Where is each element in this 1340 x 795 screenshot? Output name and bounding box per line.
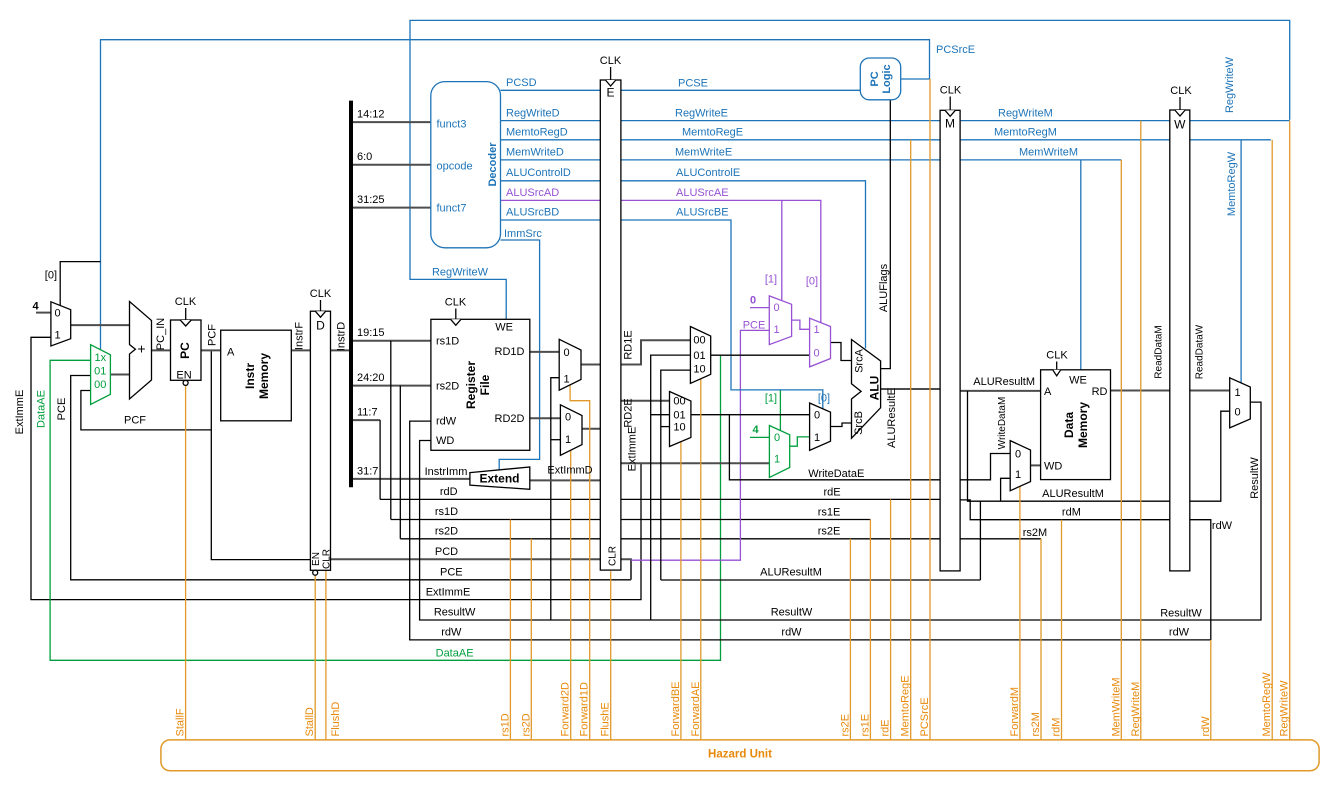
svg-text:Memory: Memory <box>1076 402 1090 448</box>
svg-text:1: 1 <box>563 374 569 386</box>
wire FlushE hazard to E register CLR <box>610 571 612 740</box>
svg-text:StallD: StallD <box>304 707 316 736</box>
wire ALUResultM drop to E stage bus <box>979 501 981 580</box>
wire ForwardBE hazard to SrcB forward mux select <box>680 441 682 740</box>
wire InstrD D register to instruction bus <box>331 349 352 351</box>
wire ResultW bus from result mux back to Register File WD <box>420 402 1261 620</box>
wire rdW bus from W register back to Register File rdW <box>410 421 1211 640</box>
svg-text:Extend: Extend <box>479 472 519 486</box>
svg-text:0: 0 <box>565 412 571 424</box>
svg-text:1: 1 <box>814 432 820 444</box>
wire ExtImmE branch target into PC mux input 1 and ExtImmE bus <box>31 337 641 599</box>
svg-text:rdW: rdW <box>781 627 802 639</box>
wire RegWriteW hazard tap <box>1289 121 1291 740</box>
mux WriteDataM forward (0/1) <box>1010 441 1030 491</box>
svg-text:EN: EN <box>311 552 322 566</box>
svg-text:RegWriteE: RegWriteE <box>675 107 728 119</box>
wire rdM hazard tap <box>1061 520 1063 740</box>
svg-text:ALUSrcBE: ALUSrcBE <box>676 207 729 219</box>
svg-text:DataAE: DataAE <box>36 390 48 428</box>
wire PCF feedback into green PC mux input 00 <box>81 391 211 430</box>
svg-text:+: + <box>137 341 145 357</box>
wire ExtImmD Extend to E register <box>530 479 601 481</box>
svg-text:CLK: CLK <box>445 297 467 309</box>
svg-text:ExtImmE: ExtImmE <box>426 586 471 598</box>
decoder U_Decoder <box>431 82 501 248</box>
svg-text:rdW: rdW <box>436 416 457 428</box>
svg-text:EN: EN <box>176 370 191 382</box>
svg-text:WE: WE <box>1069 375 1087 387</box>
svg-text:14:12: 14:12 <box>357 109 385 121</box>
svg-text:FlushD: FlushD <box>330 702 342 737</box>
wire ResultW stub to RD2D mux input 1 <box>551 439 561 441</box>
svg-text:RD2E: RD2E <box>623 398 635 427</box>
svg-text:PC: PC <box>178 342 192 359</box>
svg-text:WD: WD <box>436 435 454 447</box>
svg-text:4: 4 <box>752 424 759 436</box>
svg-text:WD: WD <box>1044 461 1062 473</box>
svg-text:rs1D: rs1D <box>436 336 459 348</box>
svg-text:RegWriteD: RegWriteD <box>506 107 560 119</box>
svg-text:ALUResultE: ALUResultE <box>886 388 898 448</box>
clock input PC <box>185 308 187 320</box>
wire ALUResultM drop and bus to result mux input 0 <box>968 391 1230 501</box>
svg-text:WriteDataM: WriteDataM <box>997 397 1008 450</box>
svg-text:Hazard Unit: Hazard Unit <box>708 749 772 761</box>
wire MemWriteM hazard tap <box>1120 160 1122 740</box>
wire ResultW riser to RD1D/RD2D mux inputs 1 <box>551 378 559 620</box>
svg-text:Logic: Logic <box>881 64 893 93</box>
svg-text:ExtImmE: ExtImmE <box>627 427 639 472</box>
svg-text:InstrD: InstrD <box>336 322 348 351</box>
svg-text:rdW: rdW <box>1200 716 1212 737</box>
wire RegWriteW feedback loop (W to Register File WE) <box>410 20 1290 319</box>
svg-text:1x: 1x <box>94 352 106 364</box>
svg-text:funct7: funct7 <box>437 203 467 215</box>
wire StallD hazard to D register EN <box>314 575 316 740</box>
svg-text:10: 10 <box>693 364 705 376</box>
mux RD2D forward (0/1) <box>560 405 582 456</box>
svg-text:funct3: funct3 <box>437 119 467 131</box>
wire rs1E hazard tap <box>869 520 871 740</box>
block Instr Memory <box>221 330 292 421</box>
svg-text:0: 0 <box>773 302 779 314</box>
svg-text:MemWriteD: MemWriteD <box>506 147 564 159</box>
svg-text:CLK: CLK <box>1170 85 1192 97</box>
svg-text:ALUSrcAE: ALUSrcAE <box>676 187 729 199</box>
svg-text:[1]: [1] <box>765 393 777 405</box>
svg-text:rs2M: rs2M <box>1023 527 1047 539</box>
svg-text:0: 0 <box>750 295 756 307</box>
instruction bus InstrD <box>349 101 353 488</box>
svg-text:ReadDataW: ReadDataW <box>1195 324 1206 379</box>
wire MemWriteD/E/M control <box>501 159 1122 161</box>
svg-text:ALUSrcBD: ALUSrcBD <box>506 207 559 219</box>
wire DataAE green loop from SrcAE tap to green PC mux input 1x <box>50 355 720 660</box>
svg-text:RD1D: RD1D <box>495 346 525 358</box>
svg-text:CLK: CLK <box>175 296 197 308</box>
svg-text:[0]: [0] <box>818 392 830 404</box>
svg-text:rs2D: rs2D <box>436 381 459 393</box>
svg-text:PCD: PCD <box>435 546 458 558</box>
wire PCF PC register to Instr Memory <box>201 349 221 351</box>
svg-text:0: 0 <box>813 348 819 360</box>
svg-text:ForwardM: ForwardM <box>1009 687 1021 737</box>
wire ALUSrcAE[1] riser to purple mux select <box>781 200 783 301</box>
mux SrcB forward (00/01/10) <box>670 392 691 447</box>
wire SrcA forward mux output to purple mux 0 input <box>711 354 810 356</box>
svg-text:MemtoRegW: MemtoRegW <box>1226 151 1238 216</box>
wire ALUResultM riser to forward mux 10 inputs <box>661 370 691 580</box>
wire WriteDataE from forward mux output down and to Data Memory mux <box>729 415 1010 480</box>
svg-text:0: 0 <box>563 347 569 359</box>
enable bubble PC EN <box>183 380 188 385</box>
svg-text:SrcB: SrcB <box>853 411 865 435</box>
wire rs2E hazard tap <box>849 539 851 740</box>
mux green SrcB imm (0/1) <box>769 426 789 478</box>
wire PCSrcE[0] tap to PC source mux select <box>60 262 100 306</box>
svg-text:PC_IN: PC_IN <box>155 318 167 350</box>
svg-text:MemtoRegE: MemtoRegE <box>900 675 912 736</box>
wire SrcB mux output into ALU SrcB <box>831 423 852 427</box>
svg-text:1: 1 <box>55 329 61 341</box>
wire purple mux1 output to purple mux2 input 1 <box>792 320 810 329</box>
svg-text:01: 01 <box>693 350 705 362</box>
svg-text:MemtoRegD: MemtoRegD <box>506 127 568 139</box>
svg-text:rs1D: rs1D <box>499 713 511 736</box>
svg-text:ALUSrcAD: ALUSrcAD <box>506 187 559 199</box>
svg-text:PCSE: PCSE <box>678 78 708 90</box>
wire Forward2D hazard to RD2D mux select <box>570 450 572 740</box>
wire ALUFlags from ALU up to PC Logic <box>881 100 891 369</box>
svg-text:ForwardAE: ForwardAE <box>690 681 702 736</box>
svg-text:1: 1 <box>774 454 780 466</box>
svg-text:PCE: PCE <box>56 398 68 421</box>
wire rdW hazard tap <box>1210 640 1212 740</box>
svg-text:[1]: [1] <box>765 274 777 286</box>
wire ReadDataW W register to result mux input 1 <box>1190 390 1230 392</box>
svg-text:W: W <box>1174 118 1186 132</box>
clock input E register <box>610 67 612 80</box>
wire rs1D riser <box>390 341 392 520</box>
svg-text:E: E <box>606 86 614 100</box>
svg-text:MemWriteE: MemWriteE <box>675 147 732 159</box>
block Hazard Unit <box>161 740 1319 771</box>
svg-text:SrcA: SrcA <box>854 348 866 373</box>
svg-text:00: 00 <box>94 379 106 391</box>
wire FlushD hazard to D register CLR <box>325 570 327 740</box>
wire MemtoRegW drop to result mux select <box>1240 140 1242 383</box>
wire ALUResultM stub to SrcB forward mux 10 <box>661 426 670 428</box>
svg-text:Decoder: Decoder <box>487 142 499 187</box>
svg-text:rdW: rdW <box>1212 520 1233 532</box>
wire MemWriteM drop to Data Memory WE <box>1080 160 1082 370</box>
wire rs1D hazard tap <box>509 520 511 740</box>
wire PCE bus to green PC mux input 01 <box>71 376 631 580</box>
svg-text:PCE: PCE <box>743 320 766 332</box>
svg-text:File: File <box>478 374 492 395</box>
wire Forward1D hazard to RD1D mux select <box>570 385 590 740</box>
svg-text:rdW: rdW <box>1169 627 1190 639</box>
pipeline register M <box>940 110 960 571</box>
block Data Memory <box>1041 370 1111 480</box>
clock input Register File <box>455 309 457 320</box>
alu ALU <box>852 340 881 439</box>
svg-text:FlushE: FlushE <box>600 702 612 736</box>
wire RegWriteD/E/M control <box>501 120 1290 122</box>
wire bus tap 6:0 to Decoder opcode <box>351 164 431 166</box>
pipeline register D <box>310 311 330 570</box>
svg-text:1: 1 <box>565 434 571 446</box>
svg-text:1: 1 <box>1234 387 1240 399</box>
svg-text:ALUControlE: ALUControlE <box>676 167 740 179</box>
wire ResultW riser to forward mux 01 inputs <box>651 355 691 620</box>
wire StallF hazard to PC EN <box>185 385 187 740</box>
wire green PC mux output to adder <box>110 374 129 376</box>
wire constant 4 stub into PC source mux <box>36 312 51 314</box>
svg-text:31:25: 31:25 <box>357 194 385 206</box>
svg-text:Forward2D: Forward2D <box>560 682 572 736</box>
svg-text:rs2D: rs2D <box>520 713 532 736</box>
wire ALUResultM from M register to Data Memory A <box>960 390 1041 392</box>
svg-text:A: A <box>1044 386 1052 398</box>
clock input Data Memory <box>1056 362 1058 370</box>
wire ExtImmE from E register to SrcB green mux <box>621 462 770 464</box>
svg-text:ALUResultM: ALUResultM <box>973 376 1035 388</box>
register PC <box>171 320 202 380</box>
svg-text:0: 0 <box>1015 449 1021 461</box>
clock input M register <box>949 97 951 111</box>
svg-text:rs2M: rs2M <box>1030 712 1042 736</box>
svg-text:InstrImm: InstrImm <box>425 466 468 478</box>
wire green constant 4 stub <box>750 436 769 438</box>
svg-text:0: 0 <box>814 410 820 422</box>
svg-text:D: D <box>316 319 325 333</box>
wire WriteDataM mux output to Data Memory WD <box>1031 464 1041 466</box>
svg-text:PCSrcE: PCSrcE <box>936 44 975 56</box>
mux SrcB final (0/1) <box>810 403 831 450</box>
svg-text:RegWriteW: RegWriteW <box>1279 680 1291 737</box>
svg-text:WE: WE <box>495 322 513 334</box>
svg-text:ResultW: ResultW <box>1249 457 1261 499</box>
wire PCE purple tap to SrcA mux input <box>631 330 769 560</box>
block Register File <box>431 319 530 450</box>
svg-text:CLR: CLR <box>321 549 332 569</box>
svg-text:StallF: StallF <box>175 708 187 736</box>
svg-text:InstrF: InstrF <box>294 322 306 350</box>
svg-text:rs2D: rs2D <box>435 525 458 537</box>
svg-text:ALU: ALU <box>868 376 882 401</box>
svg-text:1: 1 <box>813 324 819 336</box>
svg-text:RD: RD <box>1092 386 1108 398</box>
svg-text:19:15: 19:15 <box>357 327 385 339</box>
svg-text:rdD: rdD <box>440 486 458 498</box>
svg-text:RD2D: RD2D <box>495 413 525 425</box>
svg-text:0: 0 <box>55 308 61 320</box>
wire PCSrcE from PC Logic around top-left down to PC mux select <box>101 40 930 350</box>
svg-text:rdW: rdW <box>441 627 462 639</box>
clock input D register <box>320 300 322 311</box>
svg-text:rdM: rdM <box>1062 507 1081 519</box>
svg-text:MemtoRegW: MemtoRegW <box>1261 672 1273 737</box>
svg-text:rdE: rdE <box>823 486 840 498</box>
svg-text:CLK: CLK <box>940 85 962 97</box>
wire bus tap 14:12 to Decoder funct3 <box>351 121 431 123</box>
svg-text:rs1E: rs1E <box>818 506 841 518</box>
clock input W register <box>1179 97 1181 110</box>
svg-text:PCF: PCF <box>124 414 146 426</box>
svg-text:RegWriteW: RegWriteW <box>432 267 489 279</box>
svg-text:A: A <box>227 346 235 358</box>
wire ALUSrcBE[1] green riser to SrcB green mux select <box>779 390 781 430</box>
svg-text:ForwardBE: ForwardBE <box>670 681 682 736</box>
wire RegWriteM hazard tap <box>1140 121 1142 740</box>
svg-text:rs2E: rs2E <box>818 526 841 538</box>
svg-text:ReadDataM: ReadDataM <box>1154 325 1165 378</box>
wire SrcA purple mux2 output into ALU SrcA <box>831 343 852 361</box>
wire RD1D Register File to forward mux <box>530 351 559 353</box>
svg-text:RegWriteW: RegWriteW <box>1224 56 1236 113</box>
mux purple ALUSrcA 2 (1/0) <box>810 318 831 367</box>
svg-text:MemtoRegE: MemtoRegE <box>682 127 743 139</box>
mux purple ALUSrcA 1 (0/1) <box>769 296 791 345</box>
svg-text:ResultW: ResultW <box>434 607 476 619</box>
svg-text:0: 0 <box>774 432 780 444</box>
svg-text:rs1D: rs1D <box>435 506 458 518</box>
svg-text:ExtImmD: ExtImmD <box>547 465 592 477</box>
wire rs2D riser <box>399 386 401 539</box>
svg-text:CLK: CLK <box>600 55 622 67</box>
svg-text:1: 1 <box>773 324 779 336</box>
svg-text:Data: Data <box>1062 412 1076 438</box>
block PC Logic <box>860 58 900 100</box>
wire RD2D mux output to E register <box>582 428 600 430</box>
svg-text:ResultW: ResultW <box>1160 608 1202 620</box>
wire ResultW stub to SrcB forward mux 01 <box>651 414 670 416</box>
adder PC plus 4 <box>130 302 152 400</box>
wire bus tap 19:15 rs1D into Register File <box>351 340 431 342</box>
wire rdE hazard tap <box>890 499 892 740</box>
wire rdD/rdE bus <box>380 498 940 500</box>
wire RD1D mux output to E register and RD1E to SrcA forward mux <box>581 340 690 364</box>
svg-text:0: 0 <box>1234 407 1240 419</box>
pipeline register E <box>600 80 621 570</box>
wire ALUSrcAD/E control purple <box>501 200 821 322</box>
wire PC_IN adder output to PC register <box>152 349 171 351</box>
block Extend <box>470 467 530 489</box>
wire ForwardAE hazard to SrcA forward mux select <box>700 379 702 740</box>
wire ALUResultE from ALU to M register <box>881 388 941 390</box>
svg-text:00: 00 <box>693 334 705 346</box>
svg-text:ALUControlD: ALUControlD <box>506 167 571 179</box>
mux ResultW (1/0) <box>1230 378 1251 428</box>
wire RD2D Register File to forward mux <box>530 417 561 419</box>
svg-text:Forward1D: Forward1D <box>579 682 591 736</box>
wire bus tap 31:25 to Decoder funct7 <box>351 207 431 209</box>
svg-text:ExtImmE: ExtImmE <box>14 390 26 435</box>
mux SrcA forward (00/01/10) <box>690 327 710 384</box>
wire RD2E from E register to SrcB forward mux <box>621 400 670 402</box>
wire ALUControlD/E control to ALU <box>501 181 866 349</box>
svg-text:1: 1 <box>1015 469 1021 481</box>
svg-text:rdM: rdM <box>1051 718 1063 737</box>
svg-text:ALUResultM: ALUResultM <box>1042 488 1104 500</box>
wire green SrcB mux output to SrcB mux input 1 <box>790 437 810 446</box>
svg-text:CLR: CLR <box>607 546 618 566</box>
pipeline register W <box>1170 110 1190 571</box>
wire PCF down to D register PCD input <box>211 350 310 559</box>
svg-text:Register: Register <box>464 361 478 409</box>
svg-text:DataAE: DataAE <box>436 647 474 659</box>
wire ImmSrc from Decoder to Extend <box>499 240 539 470</box>
svg-text:4: 4 <box>32 300 39 312</box>
svg-text:RD1E: RD1E <box>623 330 635 359</box>
svg-text:24:20: 24:20 <box>357 372 385 384</box>
svg-text:[0]: [0] <box>806 276 818 288</box>
wire bus tap 24:20 rs2D into Register File <box>351 385 431 387</box>
svg-text:RegWriteM: RegWriteM <box>998 107 1053 119</box>
svg-text:M: M <box>945 116 955 130</box>
svg-text:CLK: CLK <box>1046 350 1068 362</box>
wire purple constant 0 stub <box>750 307 769 309</box>
wire MemtoRegW hazard tap <box>1271 140 1273 740</box>
svg-text:11:7: 11:7 <box>357 407 378 419</box>
wire WriteDataM mux input 1 tap from ALUResultM <box>1001 478 1011 501</box>
svg-text:PCF: PCF <box>207 324 219 346</box>
svg-text:PCE: PCE <box>440 567 463 579</box>
svg-text:31:7: 31:7 <box>357 465 378 477</box>
svg-text:opcode: opcode <box>437 161 473 173</box>
wire ReadDataM Data Memory RD to W register <box>1111 390 1170 392</box>
svg-text:01: 01 <box>94 366 106 378</box>
svg-text:00: 00 <box>673 396 685 408</box>
wire rs2D/rs2E/rs2M bus <box>400 538 1041 540</box>
svg-text:MemWriteM: MemWriteM <box>1110 677 1122 736</box>
mux PC green (1x/01/00) <box>91 345 111 405</box>
wire ALUResultM bus to forward mux riser <box>661 579 981 581</box>
enable bubble D register EN <box>313 570 318 575</box>
svg-text:Instr: Instr <box>243 363 257 389</box>
wire MemtoRegE hazard tap <box>910 140 912 740</box>
wire InstrF Instr Memory to D register <box>291 349 310 351</box>
svg-text:10: 10 <box>673 422 685 434</box>
mux PC source (0/1) <box>51 302 71 346</box>
svg-text:rdE: rdE <box>880 719 892 736</box>
svg-text:WriteDataE: WriteDataE <box>808 468 864 480</box>
svg-text:RegWriteM: RegWriteM <box>1130 682 1142 737</box>
svg-text:MemWriteM: MemWriteM <box>1019 147 1078 159</box>
wire PC mux output to adder <box>71 324 130 326</box>
wire PCSD/PCSE control <box>501 89 861 91</box>
mux RD1D forward (0/1) <box>559 339 581 390</box>
svg-text:ALUFlags: ALUFlags <box>878 263 890 312</box>
svg-text:[0]: [0] <box>45 270 57 282</box>
wire PCD from D register to PCE corner <box>331 559 632 580</box>
wire bus tap 31:7 InstrImm into Extend <box>351 478 470 480</box>
wire bus tap 11:7 rdD <box>351 419 380 421</box>
svg-text:01: 01 <box>673 410 685 422</box>
svg-text:6:0: 6:0 <box>357 151 372 163</box>
svg-text:ImmSrc: ImmSrc <box>504 228 542 240</box>
svg-text:MemtoRegM: MemtoRegM <box>994 127 1057 139</box>
svg-text:PCSrcE: PCSrcE <box>919 697 931 736</box>
wire rdD riser <box>379 420 381 499</box>
svg-text:CLK: CLK <box>310 288 332 300</box>
wire ForwardM hazard to WriteDataM mux select <box>1019 486 1021 740</box>
svg-text:PCSD: PCSD <box>506 77 537 89</box>
svg-text:Memory: Memory <box>257 353 271 399</box>
wire PCSrcE hazard tap <box>929 79 931 740</box>
